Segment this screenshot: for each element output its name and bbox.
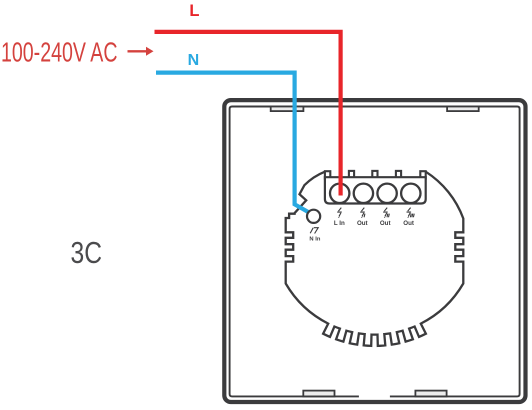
svg-text:Out: Out bbox=[403, 220, 414, 227]
terminal hole Out2 bbox=[377, 184, 396, 203]
bolt icon Out3 bbox=[407, 208, 415, 218]
svg-text:3C: 3C bbox=[71, 236, 103, 270]
N In symbol bbox=[310, 228, 318, 234]
terminal block tab 2 bbox=[372, 171, 377, 179]
svg-text:N: N bbox=[188, 52, 200, 69]
terminal hole L In bbox=[330, 184, 349, 203]
arrow bbox=[128, 47, 154, 56]
inner frame (gap at bottom middle) bbox=[230, 107, 520, 397]
outer frame bbox=[224, 100, 525, 402]
terminal block corner post right bbox=[420, 171, 425, 178]
terminal block tab 1 bbox=[349, 171, 354, 179]
svg-text:L In: L In bbox=[334, 220, 345, 227]
mounting plate outline bbox=[286, 172, 464, 346]
wire L (red) bbox=[155, 32, 341, 196]
bolt icon Out2 bbox=[383, 208, 389, 218]
svg-text:Out: Out bbox=[357, 220, 368, 227]
terminal block tab 3 bbox=[396, 171, 401, 179]
frame tab top-right bbox=[447, 107, 479, 112]
frame tab bottom-right bbox=[415, 391, 446, 397]
frame tab top-left bbox=[271, 107, 304, 112]
svg-text:Out: Out bbox=[380, 220, 391, 227]
bolt icon L bbox=[337, 208, 342, 218]
terminal block corner post left bbox=[325, 171, 330, 178]
svg-text:L: L bbox=[189, 2, 199, 20]
terminal block body bbox=[325, 177, 426, 203]
svg-text:100-240V AC: 100-240V AC bbox=[1, 37, 117, 68]
terminal N In bbox=[307, 210, 320, 223]
terminal hole Out1 bbox=[354, 184, 373, 203]
svg-text:N In: N In bbox=[309, 237, 320, 243]
frame tab bottom-left bbox=[303, 391, 334, 397]
wire N (blue) bbox=[156, 73, 318, 218]
terminal hole Out3 bbox=[401, 184, 420, 203]
bolt icon Out1 bbox=[360, 208, 365, 218]
